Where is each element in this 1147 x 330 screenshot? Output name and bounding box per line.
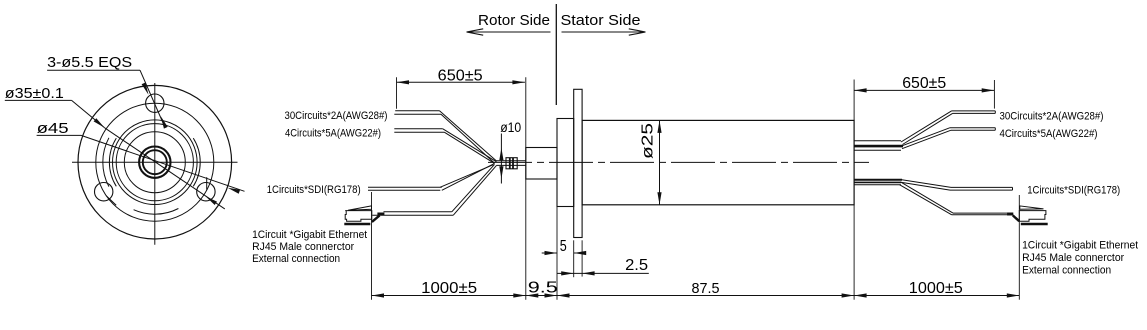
arrowhead on bolt circle upper-left [94, 118, 105, 128]
Ø10 down arrowhead [499, 166, 503, 179]
short arc bottom r52 [134, 209, 179, 215]
leader line 3-Ø5.5 underline [47, 69, 140, 71]
RJ45 connector right: pad underline [1021, 223, 1048, 226]
right upper thick bundle [854, 140, 901, 142]
right cable SDI pair [901, 180, 951, 188]
650L left arrowhead [397, 80, 410, 84]
arrowhead on bolt circle lower-right [206, 196, 218, 205]
Ø25 down arrowhead [657, 192, 661, 205]
neck bottom line [497, 164, 526, 166]
arrowhead on outer circle [228, 188, 241, 194]
RJ45 connector right: latch wedge [1020, 206, 1044, 209]
bottom chain: right connector extension line [1018, 195, 1020, 300]
RJ45 connector left: latch wedge [348, 206, 372, 210]
1000R right arrowhead [1007, 293, 1020, 297]
dim Ø25 vertical line [659, 120, 661, 204]
collar bold mark 2 [512, 158, 514, 169]
svg-text:ø10: ø10 [500, 119, 521, 135]
dim 650±5 right extension line b [993, 80, 995, 109]
svg-text:1Circuits*SDI(RG178): 1Circuits*SDI(RG178) [1027, 184, 1120, 196]
RJ45 connector right: body [1019, 211, 1046, 222]
right cable ethernet pair [901, 182, 953, 213]
stator open arrowhead [629, 29, 646, 32]
inner circle [116, 124, 193, 201]
rotor/stator divider line [555, 4, 557, 105]
leader line 3-Ø5.5 diagonal through top hole [140, 70, 164, 124]
bottom chain: body right edge extension line [853, 205, 855, 300]
dim 5 line left tail [542, 252, 557, 254]
lower-right hole center tick [206, 177, 208, 190]
mounting flange plate 2.5mm [574, 89, 582, 237]
svg-text:External connection: External connection [1022, 265, 1111, 277]
svg-text:30Circuits*2A(AWG28#): 30Circuits*2A(AWG28#) [1000, 111, 1104, 123]
bolt circle Ø35 [96, 103, 214, 221]
leader Ø45 underline [37, 134, 82, 136]
flange end view: center crosshair vertical centerline [154, 83, 156, 245]
dim 5 extension: hub left uses long 557 line [556, 207, 558, 300]
dim 650±5 right extension line a [853, 80, 855, 121]
svg-text:650±5: 650±5 [902, 75, 946, 92]
flange outer circle (Ø45 drawn) [78, 85, 232, 239]
rotor side arrow line [467, 31, 551, 33]
leader Ø35 diagonal to bolt circle [72, 100, 105, 127]
hub collar 5mm [557, 119, 574, 207]
RJ45 connector left: pad underline [344, 223, 370, 226]
RJ45 connector right: strain relief bold diagonal [1013, 215, 1019, 221]
collar bold mark 1 [509, 158, 511, 169]
5 dim left-pointing arrowhead [574, 251, 587, 255]
svg-text:1Circuit *Gigabit Ethernet: 1Circuit *Gigabit Ethernet [1022, 240, 1138, 252]
arrowhead at top hole upper edge [142, 83, 149, 95]
2.5 right arrowhead pointing left [582, 271, 595, 275]
svg-text:RJ45 Male connerctor: RJ45 Male connerctor [1022, 252, 1124, 264]
flange right face extension line [581, 240, 583, 276]
svg-text:ø45: ø45 [37, 120, 69, 137]
Ø10 shaft [526, 148, 557, 180]
short arc left r52 [103, 138, 109, 187]
flange left face extension line [573, 240, 575, 277]
dim 2.5 line [557, 272, 649, 274]
svg-text:ø25: ø25 [640, 123, 657, 159]
Ø25 up arrowhead [657, 120, 661, 132]
Ø35 dimension line through center [105, 128, 225, 209]
dim 5 line right tail [574, 252, 585, 254]
main centerline dash-dot [488, 161, 869, 163]
svg-text:4Circuits*5A(AWG22#): 4Circuits*5A(AWG22#) [285, 128, 381, 140]
right cable 30Circuits pair [901, 111, 952, 142]
right 4C wire end cap [994, 128, 996, 131]
svg-text:ø35±0.1: ø35±0.1 [5, 85, 64, 102]
inner circle 2 [124, 132, 185, 193]
left cable ethernet pair [384, 211, 452, 213]
svg-text:1Circuits*SDI(RG178): 1Circuits*SDI(RG178) [267, 184, 361, 196]
svg-text:5: 5 [560, 238, 567, 255]
650R left arrowhead [854, 88, 867, 92]
1000R left arrowhead [854, 293, 867, 297]
left cable 4Circuits pair [394, 128, 443, 130]
svg-text:30Circuits*2A(AWG28#): 30Circuits*2A(AWG28#) [285, 110, 388, 122]
arc r45 right side [193, 138, 200, 186]
dim 650±5 left extension line b (long) [525, 77, 527, 299]
collar on neck [506, 158, 517, 169]
1000L left arrowhead [372, 293, 385, 297]
1000L right arrowhead [513, 293, 526, 297]
svg-text:4Circuits*5A(AWG22#): 4Circuits*5A(AWG22#) [1000, 128, 1098, 140]
neck top line [497, 160, 526, 162]
dim Ø10 vertical line [500, 134, 502, 184]
bottom chain: left connector extension line [371, 192, 373, 300]
right cable 4Circuits pair [901, 128, 950, 147]
svg-text:9.5: 9.5 [528, 280, 558, 297]
shaft bold circle Ø10 outer [139, 147, 170, 178]
leader Ø45 long diagonal through center [81, 135, 244, 191]
5 dim right-pointing arrowhead [545, 251, 558, 255]
svg-text:1Circuit *Gigabit Ethernet: 1Circuit *Gigabit Ethernet [252, 229, 367, 241]
svg-text:2.5: 2.5 [625, 257, 648, 274]
left cable 30Circuits pair [395, 110, 439, 112]
650R right arrowhead [982, 88, 995, 92]
RJ45 connector left: strain relief bold diagonal [372, 215, 380, 222]
bolt hole top Ø5.5 [146, 94, 164, 112]
svg-text:1000±5: 1000±5 [909, 280, 963, 297]
arrowhead at top hole lower edge [161, 116, 168, 128]
87.5 right arrowhead [842, 293, 855, 297]
shaft bold circle inner [143, 150, 167, 174]
stator side arrow line [562, 31, 646, 33]
main body cylinder Ø25 [582, 120, 854, 204]
flange end view: horizontal centerline [72, 161, 238, 163]
dim 650±5 left extension line a [396, 77, 398, 108]
87.5 left arrowhead [557, 293, 570, 297]
Ø10 up arrowhead [499, 148, 503, 161]
svg-text:External connection: External connection [252, 253, 340, 265]
right lower thick bundle [854, 179, 902, 181]
9.5 right arrowhead [545, 293, 558, 297]
right 30C wire end cap [994, 111, 996, 114]
dim 650±5 left line [397, 81, 525, 83]
RJ45 right cable ferrule square [1008, 213, 1013, 215]
body circle Ø25 [113, 120, 198, 205]
arc r45 left side [109, 138, 116, 186]
RJ45 connector left: body [345, 211, 372, 222]
650L right arrowhead [512, 80, 525, 84]
svg-text:87.5: 87.5 [692, 280, 720, 297]
dim 650±5 right line [854, 89, 994, 91]
bottom chain dimension line [372, 295, 1020, 297]
bolt hole lower-left Ø5.5 [95, 183, 113, 201]
rotor open arrowhead [467, 32, 484, 35]
svg-text:RJ45 Male connerctor: RJ45 Male connerctor [252, 241, 354, 253]
lower-left hole center tick [106, 196, 116, 206]
svg-text:1000±5: 1000±5 [421, 280, 477, 297]
svg-text:Stator Side: Stator Side [561, 12, 641, 29]
right SDI wire end cap [1012, 187, 1014, 190]
svg-text:650±5: 650±5 [438, 67, 483, 84]
RJ45 left cable ferrule square [378, 213, 384, 215]
9.5 left arrowhead [526, 293, 539, 297]
bolt hole lower-right Ø5.5 [197, 183, 215, 201]
svg-text:Rotor Side: Rotor Side [478, 12, 550, 29]
2.5 left arrowhead pointing right [561, 271, 574, 275]
svg-text:3-ø5.5 EQS: 3-ø5.5 EQS [47, 54, 132, 71]
leader Ø35 underline [5, 99, 72, 101]
left cable SDI pair [368, 186, 442, 188]
